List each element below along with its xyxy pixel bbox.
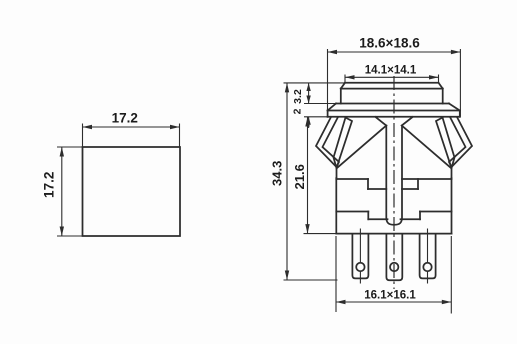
dimension line 17.2 vertical — [61, 147, 63, 236]
extension line 18.6 left — [327, 49, 329, 111]
right wing outer arm inner edge — [449, 117, 466, 167]
arrow 3.2 bottom — [306, 96, 310, 104]
body lower shelf left horizontal — [368, 218, 387, 220]
right wing inner leg sliver — [436, 118, 455, 169]
dimension line 18.6 — [328, 51, 461, 53]
cap left side — [340, 89, 342, 104]
arrow 34.3 top — [285, 83, 289, 93]
right plunger skirt diagonal — [402, 117, 451, 168]
square front view outline — [83, 147, 181, 236]
extension line pin bottom level — [284, 279, 338, 281]
arrow 17.2 horizontal right — [170, 125, 180, 129]
svg-text:17.2: 17.2 — [112, 111, 138, 126]
svg-text:16.1×16.1: 16.1×16.1 — [364, 290, 416, 302]
body lower shelf right horizontal — [401, 218, 421, 220]
flange bottom line — [328, 116, 460, 118]
extension line 18.6 right — [459, 49, 461, 117]
left wing outer arm outer edge — [316, 117, 337, 179]
centreline vertical dash-dot — [393, 76, 395, 289]
pin 3 hole — [423, 263, 431, 271]
cap inner top line — [341, 88, 443, 90]
flange top line — [336, 103, 449, 105]
cap top-left chamfer — [341, 83, 345, 89]
arrow 21.6 bottom — [305, 224, 309, 234]
dimension line 3.2 — [308, 83, 310, 104]
flange right chamfer — [449, 104, 460, 111]
extension line 16.1 left — [335, 236, 337, 312]
extension line 14.1 left — [344, 75, 346, 83]
extension line flange top level — [304, 103, 336, 105]
body lower step right horizontal — [420, 211, 452, 213]
pin 3 outline — [420, 234, 436, 278]
svg-text:3.2: 3.2 — [292, 89, 304, 104]
arrow 2 bottom outside — [306, 117, 310, 125]
body bottom line — [336, 233, 451, 235]
pin 2 hole — [390, 263, 398, 271]
right wing outer arm outer edge — [452, 117, 473, 179]
arrow 3.2 top — [306, 83, 310, 91]
flange left side — [327, 111, 329, 117]
extension line square bottom-left horizontal — [57, 235, 83, 237]
left wing outer arm inner edge — [323, 117, 340, 167]
dimension line 16.1 — [336, 301, 451, 303]
pin 2 outline — [386, 234, 402, 280]
pin 1 centre mark — [359, 229, 361, 263]
pin 1 hole — [356, 263, 364, 271]
body top edge right segment — [402, 178, 452, 180]
cap right side — [442, 89, 444, 104]
arrow 16.1 left — [336, 300, 346, 304]
dimension line 34.3 — [286, 83, 288, 280]
left plunger skirt diagonal — [337, 117, 386, 168]
extension line flange bottom level — [304, 116, 328, 118]
arrow 16.1 right — [442, 300, 452, 304]
flange mid line — [328, 110, 460, 112]
svg-text:2: 2 — [292, 108, 304, 114]
dimension line 21.6 — [307, 117, 309, 234]
body right slot vertical — [417, 179, 419, 189]
plunger shaft with U bottom — [386, 126, 402, 225]
arrow 21.6 top — [305, 117, 309, 127]
cap top-right chamfer — [439, 83, 443, 89]
arrow 14.1 right — [429, 75, 439, 79]
arrow 14.1 left — [345, 75, 355, 79]
body lower step left horizontal — [336, 211, 368, 213]
extension line square right edge up — [179, 124, 181, 148]
body right edge — [451, 178, 453, 234]
extension line body bottom level — [304, 233, 337, 235]
cap top edge — [345, 82, 439, 84]
extension line 14.1 right — [438, 75, 440, 83]
body right slot horizontal — [402, 188, 418, 190]
arrow 34.3 bottom — [285, 271, 289, 281]
arrow 18.6 right — [451, 50, 461, 54]
svg-text:34.3: 34.3 — [270, 161, 285, 186]
extension line 16.1 right — [450, 236, 452, 314]
body left edge — [335, 178, 337, 234]
extension line square left edge up — [82, 124, 84, 148]
pin 3 centre mark — [427, 229, 429, 263]
left wing inner leg sliver — [334, 118, 353, 169]
arrow 17.2 vertical top — [60, 147, 64, 157]
dimension line 2 lower outside stem — [308, 117, 310, 128]
flange right side — [459, 111, 461, 117]
extension line cap top level — [284, 82, 346, 84]
body left step horizontal — [368, 188, 386, 190]
body left step vertical — [367, 179, 369, 189]
svg-text:17.2: 17.2 — [42, 172, 57, 198]
dimension line 17.2 horizontal — [83, 126, 180, 128]
svg-text:18.6×18.6: 18.6×18.6 — [359, 36, 420, 51]
pin 1 outline — [352, 234, 368, 278]
arrow 17.2 vertical bottom — [60, 227, 64, 237]
svg-text:14.1×14.1: 14.1×14.1 — [365, 65, 417, 77]
body top edge left segment — [336, 178, 368, 180]
arrow 18.6 left — [328, 50, 338, 54]
svg-text:21.6: 21.6 — [292, 164, 307, 189]
flange left chamfer — [328, 104, 336, 111]
body lower step left vertical — [367, 212, 369, 220]
arrow 17.2 horizontal left — [83, 125, 93, 129]
body lower step right vertical — [419, 212, 421, 220]
dimension line 14.1 — [345, 76, 439, 78]
extension line square top-left horizontal — [57, 146, 83, 148]
